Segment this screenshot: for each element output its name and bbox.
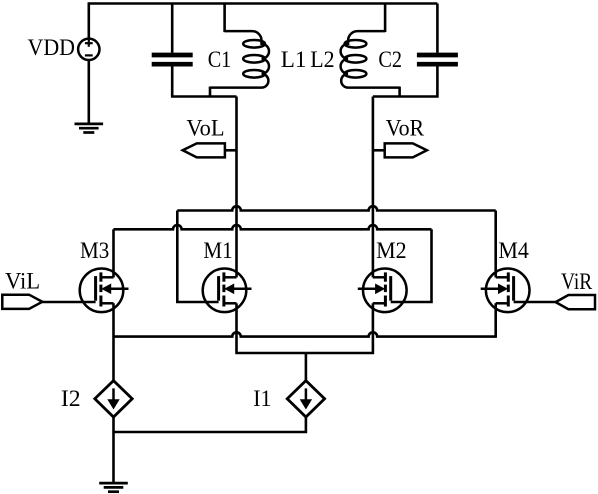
ground (top, below VDD) <box>75 124 104 133</box>
wire VDD top rail <box>89 2 438 5</box>
wire L1 top branch <box>223 4 226 33</box>
svg-text:M3: M3 <box>80 238 109 263</box>
wire I2 bottom to ground <box>112 416 115 483</box>
svg-text:ViL: ViL <box>5 269 40 294</box>
svg-text:C1: C1 <box>208 47 232 72</box>
svg-text:L2: L2 <box>310 47 334 72</box>
svg-text:I2: I2 <box>61 386 81 411</box>
transistor M2 <box>358 269 407 313</box>
wire M1 source drop <box>237 303 306 353</box>
wire M3 source to I2 <box>112 303 115 381</box>
wire VDD drop to source <box>88 2 91 38</box>
input port ViL <box>2 295 42 309</box>
wire A (M4 drain to M1 gate) <box>177 206 495 210</box>
ground (bottom) <box>99 483 128 492</box>
wire A right drop to M4 drain <box>494 211 497 278</box>
current source I2 <box>95 381 132 417</box>
svg-text:L1: L1 <box>281 47 307 72</box>
wire bus M3/M4 sources (tail bus) <box>114 332 496 336</box>
wire VoL node (tank to M1 drain) <box>235 97 238 278</box>
wire A left drop to M1 gate <box>177 211 218 303</box>
current source I1 <box>287 381 324 417</box>
wire VoL port stub <box>225 149 237 152</box>
voltage source VDD <box>78 39 99 60</box>
wire B (M3 drain to M2 gate) <box>114 225 432 229</box>
wire VoR port stub <box>373 149 385 152</box>
wire I1 top <box>305 353 308 382</box>
output port VoL <box>183 143 225 157</box>
wire B left drop to M3 drain <box>112 229 115 277</box>
wire C2 bottom to tank node <box>373 67 438 97</box>
wire C2 top <box>436 4 439 53</box>
capacitor C2 <box>417 55 458 64</box>
wire C1 bottom to tank node <box>172 67 236 97</box>
svg-text:M1: M1 <box>203 238 232 263</box>
wire L1 bottom to tank node <box>209 87 212 97</box>
svg-text:ViR: ViR <box>561 269 593 294</box>
wire M2 source drop <box>306 303 373 353</box>
svg-text:I1: I1 <box>253 386 271 411</box>
wire L2 bottom to tank node <box>398 87 401 97</box>
transistor M4 <box>481 269 530 313</box>
capacitor C1 <box>152 55 193 64</box>
svg-text:VDD: VDD <box>28 35 76 60</box>
wire I1 bottom <box>114 416 306 432</box>
wire M4 source drop <box>494 303 497 338</box>
wire ViL to M3 gate <box>42 301 95 304</box>
wire M4 gate to ViR <box>514 301 556 304</box>
svg-text:M4: M4 <box>498 238 529 263</box>
wire B right drop to M2 gate <box>391 229 432 302</box>
wire C1 top <box>171 4 174 53</box>
inductor L2 <box>341 31 400 88</box>
transistor M3 <box>80 269 129 313</box>
svg-text:VoR: VoR <box>386 115 425 140</box>
svg-text:VoL: VoL <box>186 115 224 140</box>
output port VoR <box>385 143 427 157</box>
wire VoR node (tank to M2 drain) <box>372 97 375 278</box>
svg-text:M2: M2 <box>376 238 407 263</box>
svg-text:C2: C2 <box>378 47 402 72</box>
transistor M1 <box>203 269 252 313</box>
inductor L1 <box>210 31 269 88</box>
wire VDD source to ground <box>88 60 91 124</box>
wire L2 top branch <box>384 4 387 33</box>
input port ViR <box>556 295 595 309</box>
